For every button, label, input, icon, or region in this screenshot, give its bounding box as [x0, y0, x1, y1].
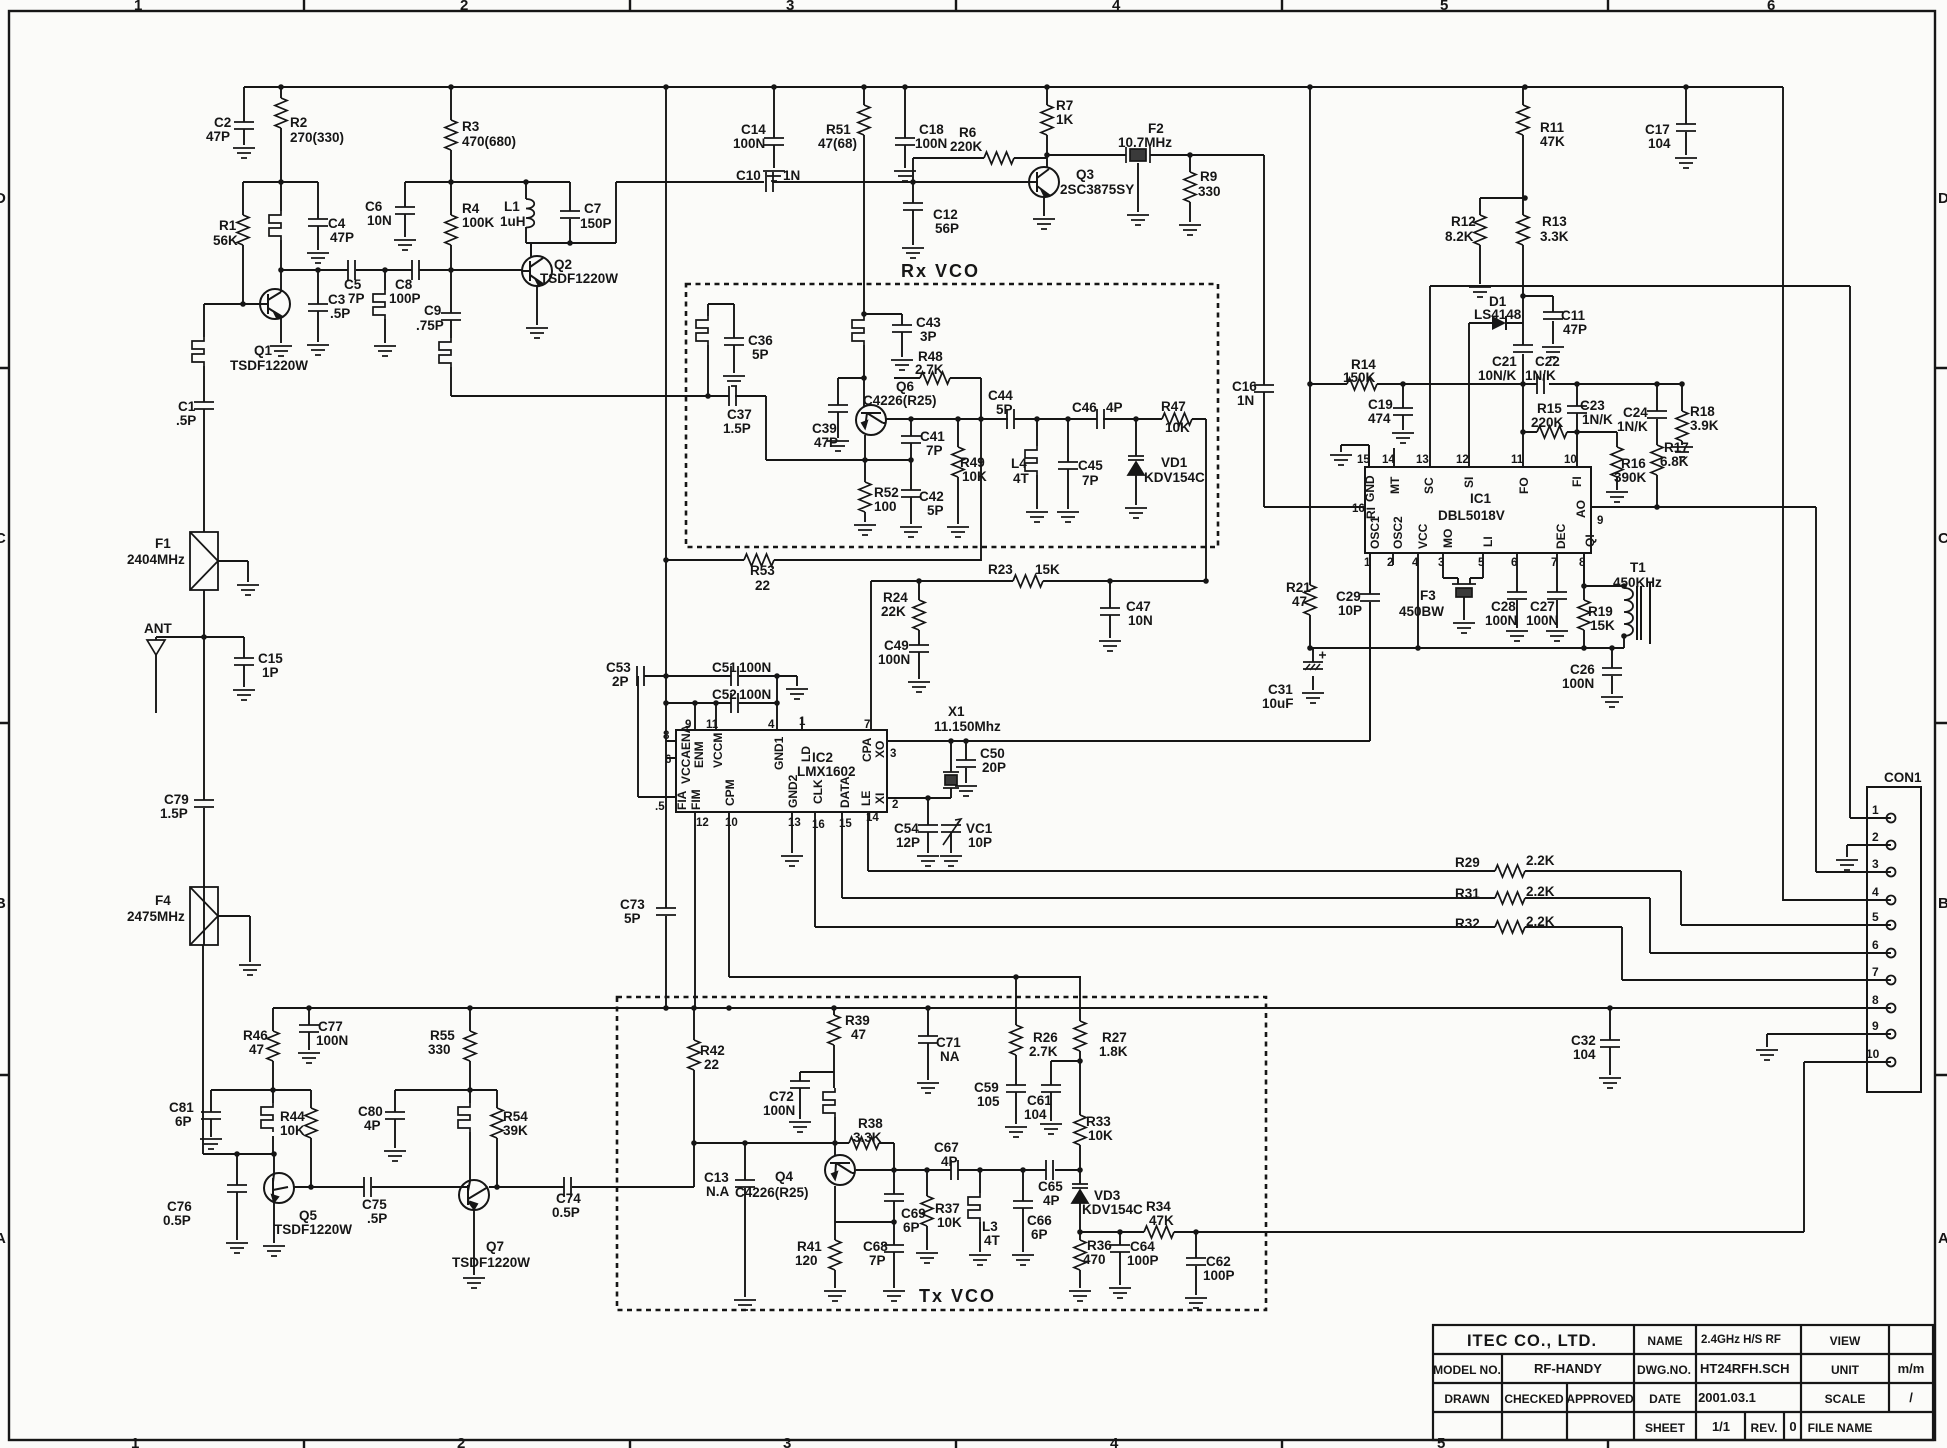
- svg-text:C2: C2: [214, 115, 231, 130]
- svg-text:6P: 6P: [175, 1114, 192, 1129]
- svg-text:10: 10: [1564, 454, 1577, 466]
- svg-text:C9: C9: [424, 303, 441, 318]
- svg-text:11: 11: [1511, 454, 1524, 466]
- svg-text:C81: C81: [169, 1100, 194, 1115]
- svg-text:Tx VCO: Tx VCO: [919, 1286, 996, 1306]
- svg-text:DRAWN: DRAWN: [1444, 1392, 1489, 1406]
- svg-text:5P: 5P: [624, 911, 641, 926]
- svg-text:C50: C50: [980, 746, 1005, 761]
- svg-text:5: 5: [1478, 557, 1485, 569]
- svg-text:ANT: ANT: [144, 621, 172, 636]
- svg-text:C73: C73: [620, 897, 645, 912]
- svg-text:100N: 100N: [733, 136, 765, 151]
- svg-text:R27: R27: [1102, 1030, 1127, 1045]
- svg-text:R17: R17: [1664, 440, 1689, 455]
- svg-text:470(680): 470(680): [462, 134, 516, 149]
- svg-text:2001.03.1: 2001.03.1: [1698, 1390, 1756, 1405]
- svg-text:450BW: 450BW: [1399, 604, 1444, 619]
- svg-text:C46: C46: [1072, 400, 1097, 415]
- svg-text:150P: 150P: [580, 216, 612, 231]
- svg-text:0.5P: 0.5P: [163, 1213, 191, 1228]
- svg-text:0: 0: [1789, 1419, 1796, 1434]
- svg-text:C28: C28: [1491, 599, 1516, 614]
- svg-text:CHECKED: CHECKED: [1504, 1392, 1564, 1406]
- svg-text:9: 9: [1597, 515, 1603, 527]
- svg-text:7P: 7P: [926, 443, 943, 458]
- svg-text:OSC2: OSC2: [1391, 516, 1405, 549]
- svg-text:6P: 6P: [903, 1220, 920, 1235]
- svg-text:100N: 100N: [878, 652, 910, 667]
- svg-text:8.2K: 8.2K: [1445, 229, 1474, 244]
- svg-text:DWG.NO.: DWG.NO.: [1637, 1363, 1691, 1377]
- svg-text:C69: C69: [901, 1206, 926, 1221]
- svg-text:14: 14: [1382, 454, 1395, 466]
- svg-text:A: A: [0, 1230, 6, 1247]
- svg-text:C5: C5: [344, 277, 362, 292]
- svg-text:C24: C24: [1623, 405, 1648, 420]
- svg-text:A: A: [1938, 1230, 1947, 1247]
- svg-text:C42: C42: [919, 489, 944, 504]
- svg-text:47P: 47P: [814, 435, 838, 450]
- svg-text:100P: 100P: [1203, 1268, 1235, 1283]
- svg-text:X1: X1: [948, 704, 965, 719]
- svg-text:C76: C76: [167, 1199, 192, 1214]
- svg-text:2: 2: [460, 0, 468, 14]
- svg-text:330: 330: [428, 1042, 451, 1057]
- svg-text:C43: C43: [916, 315, 941, 330]
- svg-text:VC1: VC1: [966, 821, 993, 836]
- svg-text:R52: R52: [874, 485, 899, 500]
- svg-text:C68: C68: [863, 1239, 888, 1254]
- svg-text:C29: C29: [1336, 589, 1361, 604]
- svg-text:10N: 10N: [1128, 613, 1153, 628]
- svg-text:56P: 56P: [935, 221, 959, 236]
- svg-text:C21: C21: [1492, 354, 1517, 369]
- svg-text:REV.: REV.: [1751, 1421, 1778, 1435]
- svg-text:R3: R3: [462, 119, 480, 134]
- svg-text:12: 12: [1456, 454, 1469, 466]
- svg-text:8: 8: [1872, 993, 1879, 1007]
- svg-text:C47: C47: [1126, 599, 1151, 614]
- svg-text:C65: C65: [1038, 1179, 1063, 1194]
- svg-text:15: 15: [1357, 454, 1370, 466]
- svg-text:TSDF1220W: TSDF1220W: [230, 358, 308, 373]
- svg-text:R37: R37: [935, 1201, 960, 1216]
- svg-text:C26: C26: [1570, 662, 1595, 677]
- svg-text:47: 47: [851, 1027, 866, 1042]
- svg-text:6: 6: [665, 754, 671, 766]
- svg-text:GND1: GND1: [772, 736, 786, 770]
- svg-text:C11: C11: [1561, 308, 1586, 323]
- svg-text:NAME: NAME: [1647, 1334, 1682, 1348]
- svg-text:47P: 47P: [330, 230, 354, 245]
- svg-text:R36: R36: [1087, 1238, 1112, 1253]
- svg-text:VCCAENA: VCCAENA: [679, 724, 693, 784]
- svg-text:12: 12: [696, 817, 709, 829]
- svg-text:C14: C14: [741, 122, 766, 137]
- svg-text:R47: R47: [1161, 399, 1186, 414]
- svg-text:10uF: 10uF: [1262, 696, 1294, 711]
- svg-text:474: 474: [1368, 411, 1391, 426]
- svg-text:4P: 4P: [1106, 400, 1123, 415]
- svg-text:R4: R4: [462, 201, 480, 216]
- svg-text:CPA: CPA: [860, 737, 874, 762]
- svg-text:3.3K: 3.3K: [1540, 229, 1569, 244]
- svg-text:FIM: FIM: [689, 789, 703, 810]
- svg-text:OSC1: OSC1: [1368, 516, 1382, 549]
- svg-text:.5P: .5P: [176, 413, 196, 428]
- svg-text:2.2K: 2.2K: [1526, 884, 1555, 899]
- svg-text:CLK: CLK: [811, 779, 825, 804]
- svg-text:120: 120: [795, 1253, 818, 1268]
- svg-text:C4226(R25): C4226(R25): [863, 393, 937, 408]
- svg-text:R51: R51: [826, 122, 851, 137]
- svg-text:15: 15: [839, 818, 852, 830]
- svg-text:22K: 22K: [881, 604, 906, 619]
- svg-text:100N: 100N: [915, 136, 947, 151]
- svg-text:R49: R49: [960, 455, 985, 470]
- svg-text:C80: C80: [358, 1104, 383, 1119]
- svg-text:16: 16: [1352, 503, 1365, 515]
- svg-text:R53: R53: [750, 563, 775, 578]
- svg-text:4: 4: [1412, 557, 1419, 569]
- svg-text:2: 2: [1872, 830, 1879, 844]
- svg-text:C59: C59: [974, 1080, 999, 1095]
- svg-text:10K: 10K: [1165, 420, 1190, 435]
- svg-text:100N: 100N: [1485, 613, 1517, 628]
- svg-text:1N: 1N: [783, 168, 800, 183]
- svg-text:L4: L4: [1011, 456, 1027, 471]
- svg-text:Q3: Q3: [1076, 167, 1095, 182]
- svg-text:9: 9: [1872, 1019, 1879, 1033]
- svg-text:MT: MT: [1388, 476, 1402, 494]
- svg-text:0.5P: 0.5P: [552, 1205, 580, 1220]
- svg-text:7P: 7P: [869, 1253, 886, 1268]
- svg-text:L3: L3: [982, 1219, 998, 1234]
- svg-text:4: 4: [1112, 0, 1121, 14]
- svg-text:7: 7: [1872, 965, 1879, 979]
- svg-text:47(68): 47(68): [818, 136, 857, 151]
- svg-text:R1: R1: [219, 218, 237, 233]
- svg-text:IC2: IC2: [812, 750, 833, 765]
- svg-text:APPROVED: APPROVED: [1566, 1392, 1634, 1406]
- svg-text:R39: R39: [845, 1013, 870, 1028]
- svg-text:C66: C66: [1027, 1213, 1052, 1228]
- svg-text:10K: 10K: [937, 1215, 962, 1230]
- svg-text:11: 11: [706, 719, 719, 731]
- svg-text:D: D: [0, 190, 6, 207]
- svg-text:3: 3: [890, 748, 896, 760]
- svg-text:2.2K: 2.2K: [1526, 914, 1555, 929]
- svg-text:D: D: [1938, 190, 1947, 207]
- svg-text:m/m: m/m: [1898, 1361, 1925, 1376]
- svg-text:10: 10: [725, 817, 738, 829]
- svg-text:FIA: FIA: [675, 790, 689, 810]
- svg-text:C36: C36: [748, 333, 773, 348]
- svg-text:C: C: [1938, 530, 1947, 547]
- svg-text:C49: C49: [884, 638, 909, 653]
- svg-text:C64: C64: [1130, 1239, 1155, 1254]
- svg-text:7: 7: [1551, 557, 1557, 569]
- svg-text:DBL5018V: DBL5018V: [1438, 508, 1505, 523]
- svg-text:10P: 10P: [968, 835, 992, 850]
- svg-text:C31: C31: [1268, 682, 1293, 697]
- svg-text:100K: 100K: [462, 215, 495, 230]
- svg-text:C27: C27: [1530, 599, 1555, 614]
- svg-text:14: 14: [866, 812, 879, 824]
- svg-text:47K: 47K: [1149, 1213, 1174, 1228]
- svg-text:XI: XI: [873, 793, 887, 804]
- svg-text:100N: 100N: [1526, 613, 1558, 628]
- svg-text:3: 3: [1872, 857, 1879, 871]
- svg-text:3.3K: 3.3K: [853, 1130, 882, 1145]
- svg-text:1: 1: [1872, 803, 1879, 817]
- svg-text:105: 105: [977, 1094, 1000, 1109]
- svg-text:4P: 4P: [941, 1154, 958, 1169]
- svg-text:IC1: IC1: [1470, 491, 1492, 506]
- svg-text:R26: R26: [1033, 1030, 1058, 1045]
- svg-text:RF-HANDY: RF-HANDY: [1534, 1361, 1602, 1376]
- svg-text:Q6: Q6: [896, 379, 915, 394]
- svg-text:C23: C23: [1580, 398, 1605, 413]
- svg-text:1N/K: 1N/K: [1582, 412, 1613, 427]
- svg-text:1.5P: 1.5P: [723, 421, 751, 436]
- svg-text:47: 47: [249, 1042, 264, 1057]
- svg-text:C52: C52: [712, 687, 737, 702]
- svg-text:SCALE: SCALE: [1825, 1392, 1866, 1406]
- svg-text:2.7K: 2.7K: [915, 362, 944, 377]
- svg-text:MODEL NO.: MODEL NO.: [1433, 1363, 1501, 1377]
- svg-text:R6: R6: [959, 125, 977, 140]
- svg-text:C44: C44: [988, 388, 1013, 403]
- svg-text:R29: R29: [1455, 855, 1480, 870]
- svg-text:UNIT: UNIT: [1831, 1363, 1860, 1377]
- svg-text:DATE: DATE: [1649, 1392, 1681, 1406]
- svg-text:1: 1: [799, 716, 806, 728]
- svg-text:15K: 15K: [1590, 618, 1615, 633]
- svg-text:C: C: [0, 530, 6, 547]
- svg-text:FILE NAME: FILE NAME: [1808, 1421, 1873, 1435]
- svg-text:VD3: VD3: [1094, 1188, 1121, 1203]
- svg-text:6: 6: [1767, 0, 1775, 14]
- svg-text:270(330): 270(330): [290, 130, 344, 145]
- svg-text:16: 16: [812, 819, 825, 831]
- svg-text:100P: 100P: [389, 291, 421, 306]
- svg-text:C79: C79: [164, 792, 189, 807]
- svg-text:22: 22: [755, 578, 770, 593]
- svg-text:R55: R55: [430, 1028, 455, 1043]
- svg-text:CON1: CON1: [1884, 770, 1922, 785]
- svg-text:C41: C41: [920, 429, 945, 444]
- svg-text:3: 3: [783, 1435, 791, 1448]
- svg-text:1P: 1P: [262, 665, 279, 680]
- svg-text:220K: 220K: [950, 139, 983, 154]
- svg-text:100N: 100N: [763, 1103, 795, 1118]
- svg-text:XO: XO: [873, 741, 887, 758]
- svg-text:47K: 47K: [1540, 134, 1565, 149]
- svg-text:DEC: DEC: [1554, 523, 1568, 549]
- svg-text:LI: LI: [1481, 536, 1495, 547]
- svg-text:ENM: ENM: [692, 741, 706, 768]
- svg-text:1: 1: [134, 0, 142, 14]
- svg-text:20P: 20P: [982, 760, 1006, 775]
- svg-text:C1: C1: [178, 399, 196, 414]
- svg-text:VCCM: VCCM: [711, 733, 725, 768]
- svg-text:R38: R38: [858, 1116, 883, 1131]
- svg-text:4: 4: [1872, 885, 1879, 899]
- svg-text:R2: R2: [290, 115, 307, 130]
- svg-text:B: B: [1938, 895, 1947, 912]
- svg-text:C22: C22: [1535, 354, 1560, 369]
- svg-text:LE: LE: [859, 791, 873, 806]
- svg-text:HT24RFH.SCH: HT24RFH.SCH: [1700, 1361, 1790, 1376]
- svg-text:C19: C19: [1368, 397, 1393, 412]
- svg-text:SHEET: SHEET: [1645, 1421, 1686, 1435]
- svg-text:R54: R54: [503, 1109, 528, 1124]
- svg-text:1: 1: [131, 1435, 139, 1448]
- svg-text:FO: FO: [1517, 477, 1531, 494]
- svg-text:7P: 7P: [1082, 473, 1099, 488]
- svg-text:22: 22: [704, 1057, 719, 1072]
- svg-text:QI: QI: [1583, 534, 1597, 547]
- svg-text:1: 1: [1364, 557, 1371, 569]
- svg-text:AO: AO: [1574, 500, 1588, 518]
- svg-text:R42: R42: [700, 1043, 725, 1058]
- svg-text:220K: 220K: [1531, 415, 1564, 430]
- svg-text:6: 6: [1872, 938, 1879, 952]
- svg-text:B: B: [0, 895, 6, 912]
- svg-text:.75P: .75P: [416, 318, 444, 333]
- svg-text:R23: R23: [988, 562, 1013, 577]
- svg-text:5: 5: [1437, 1435, 1445, 1448]
- svg-text:4: 4: [768, 719, 775, 731]
- svg-text:SC: SC: [1422, 477, 1436, 494]
- svg-text:47: 47: [1292, 594, 1307, 609]
- svg-text:.5P: .5P: [367, 1211, 387, 1226]
- svg-text:R33: R33: [1086, 1114, 1111, 1129]
- svg-text:KDV154C: KDV154C: [1082, 1202, 1143, 1217]
- svg-text:C72: C72: [769, 1089, 794, 1104]
- svg-text:MO: MO: [1441, 529, 1455, 548]
- svg-text:C54: C54: [894, 821, 919, 836]
- svg-text:DATA: DATA: [838, 776, 852, 808]
- svg-text:470: 470: [1083, 1252, 1106, 1267]
- svg-text:3.9K: 3.9K: [1690, 418, 1719, 433]
- svg-text:C6: C6: [365, 199, 383, 214]
- svg-text:TSDF1220W: TSDF1220W: [274, 1222, 352, 1237]
- svg-text:R9: R9: [1200, 169, 1217, 184]
- svg-text:5: 5: [1440, 0, 1448, 14]
- svg-text:.5P: .5P: [330, 306, 350, 321]
- svg-text:FI: FI: [1570, 476, 1584, 487]
- svg-text:C62: C62: [1206, 1254, 1231, 1269]
- svg-text:F1: F1: [155, 536, 171, 551]
- svg-text:6.8K: 6.8K: [1660, 454, 1689, 469]
- svg-text:R44: R44: [280, 1109, 305, 1124]
- svg-text:3: 3: [786, 0, 794, 14]
- svg-text:56K: 56K: [213, 233, 238, 248]
- svg-text:390K: 390K: [1614, 470, 1647, 485]
- svg-text:TSDF1220W: TSDF1220W: [452, 1255, 530, 1270]
- svg-text:L1: L1: [504, 199, 520, 214]
- svg-text:Q1: Q1: [254, 343, 273, 358]
- svg-text:2.7K: 2.7K: [1029, 1044, 1058, 1059]
- svg-text:5: 5: [1872, 910, 1879, 924]
- svg-text:330: 330: [1198, 184, 1221, 199]
- svg-text:5P: 5P: [996, 402, 1013, 417]
- svg-text:C67: C67: [934, 1140, 959, 1155]
- svg-text:2.4GHz H/S RF: 2.4GHz H/S RF: [1701, 1334, 1781, 1346]
- svg-text:R7: R7: [1056, 98, 1073, 113]
- svg-text:2475MHz: 2475MHz: [127, 909, 185, 924]
- svg-text:7P: 7P: [348, 291, 365, 306]
- svg-text:Rx VCO: Rx VCO: [901, 261, 980, 281]
- svg-text:R24: R24: [883, 590, 908, 605]
- svg-text:R15: R15: [1537, 401, 1562, 416]
- svg-text:4T: 4T: [1013, 471, 1030, 486]
- svg-text:10K: 10K: [1088, 1128, 1113, 1143]
- svg-text:150K: 150K: [1343, 370, 1376, 385]
- svg-text:RI: RI: [1364, 507, 1378, 519]
- svg-text:C15: C15: [258, 651, 283, 666]
- svg-text:2404MHz: 2404MHz: [127, 552, 185, 567]
- svg-text:2.2K: 2.2K: [1526, 853, 1555, 868]
- svg-text:4P: 4P: [1043, 1193, 1060, 1208]
- svg-text:C61: C61: [1027, 1093, 1052, 1108]
- svg-text:47P: 47P: [206, 129, 230, 144]
- svg-text:R41: R41: [797, 1239, 822, 1254]
- svg-text:GND2: GND2: [786, 774, 800, 808]
- svg-text:10K: 10K: [280, 1123, 305, 1138]
- svg-text:4P: 4P: [364, 1118, 381, 1133]
- svg-text:C17: C17: [1645, 122, 1670, 137]
- svg-text:13: 13: [788, 817, 801, 829]
- svg-text:104: 104: [1024, 1107, 1047, 1122]
- svg-text:R31: R31: [1455, 886, 1480, 901]
- svg-text:C13: C13: [704, 1170, 729, 1185]
- svg-text:13: 13: [1416, 454, 1429, 466]
- svg-text:10.7MHz: 10.7MHz: [1118, 135, 1172, 150]
- svg-text:1.5P: 1.5P: [160, 806, 188, 821]
- svg-text:104: 104: [1648, 136, 1671, 151]
- svg-text:/: /: [1909, 1390, 1913, 1405]
- svg-text:15K: 15K: [1035, 562, 1060, 577]
- svg-text:R13: R13: [1542, 214, 1567, 229]
- svg-text:C8: C8: [395, 277, 413, 292]
- svg-text:1N: 1N: [1237, 393, 1254, 408]
- svg-text:1/1: 1/1: [1712, 1419, 1730, 1434]
- svg-text:C16: C16: [1232, 379, 1257, 394]
- svg-text:NA: NA: [940, 1049, 960, 1064]
- svg-text:Q5: Q5: [299, 1208, 318, 1223]
- svg-text:3: 3: [1438, 557, 1444, 569]
- svg-text:C32: C32: [1571, 1033, 1596, 1048]
- svg-text:12P: 12P: [896, 835, 920, 850]
- svg-text:10K: 10K: [962, 469, 987, 484]
- svg-text:C10: C10: [736, 168, 761, 183]
- svg-text:2: 2: [457, 1435, 465, 1448]
- svg-text:104: 104: [1573, 1047, 1596, 1062]
- svg-text:100N: 100N: [739, 660, 771, 675]
- svg-text:TSDF1220W: TSDF1220W: [540, 271, 618, 286]
- svg-text:R11: R11: [1540, 120, 1565, 135]
- svg-text:11.150Mhz: 11.150Mhz: [934, 719, 1001, 734]
- svg-text:6P: 6P: [1031, 1227, 1048, 1242]
- svg-text:R16: R16: [1621, 456, 1646, 471]
- svg-text:F4: F4: [155, 893, 171, 908]
- svg-text:C71: C71: [936, 1035, 961, 1050]
- svg-text:VIEW: VIEW: [1830, 1334, 1861, 1348]
